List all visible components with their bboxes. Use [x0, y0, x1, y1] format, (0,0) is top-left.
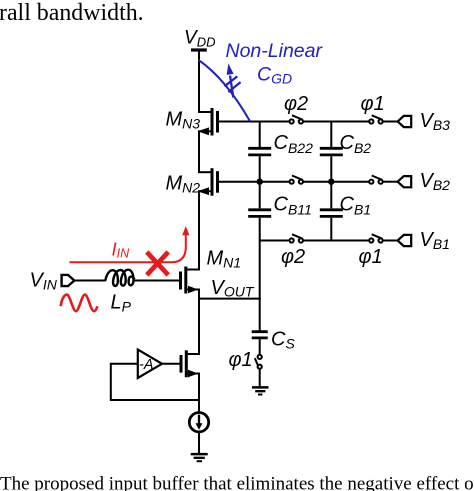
svg-text:φ2: φ2 — [281, 246, 305, 268]
svg-text:φ1: φ1 — [361, 93, 385, 115]
svg-text:φ1: φ1 — [359, 246, 383, 268]
svg-text:The proposed input buffer that: The proposed input buffer that eliminate… — [0, 474, 474, 491]
svg-text:-A: -A — [139, 357, 154, 373]
svg-text:φ2: φ2 — [284, 93, 308, 115]
svg-text:Non-Linear: Non-Linear — [226, 40, 324, 62]
svg-text:rall bandwidth.: rall bandwidth. — [0, 0, 144, 26]
svg-text:φ1: φ1 — [229, 349, 253, 371]
